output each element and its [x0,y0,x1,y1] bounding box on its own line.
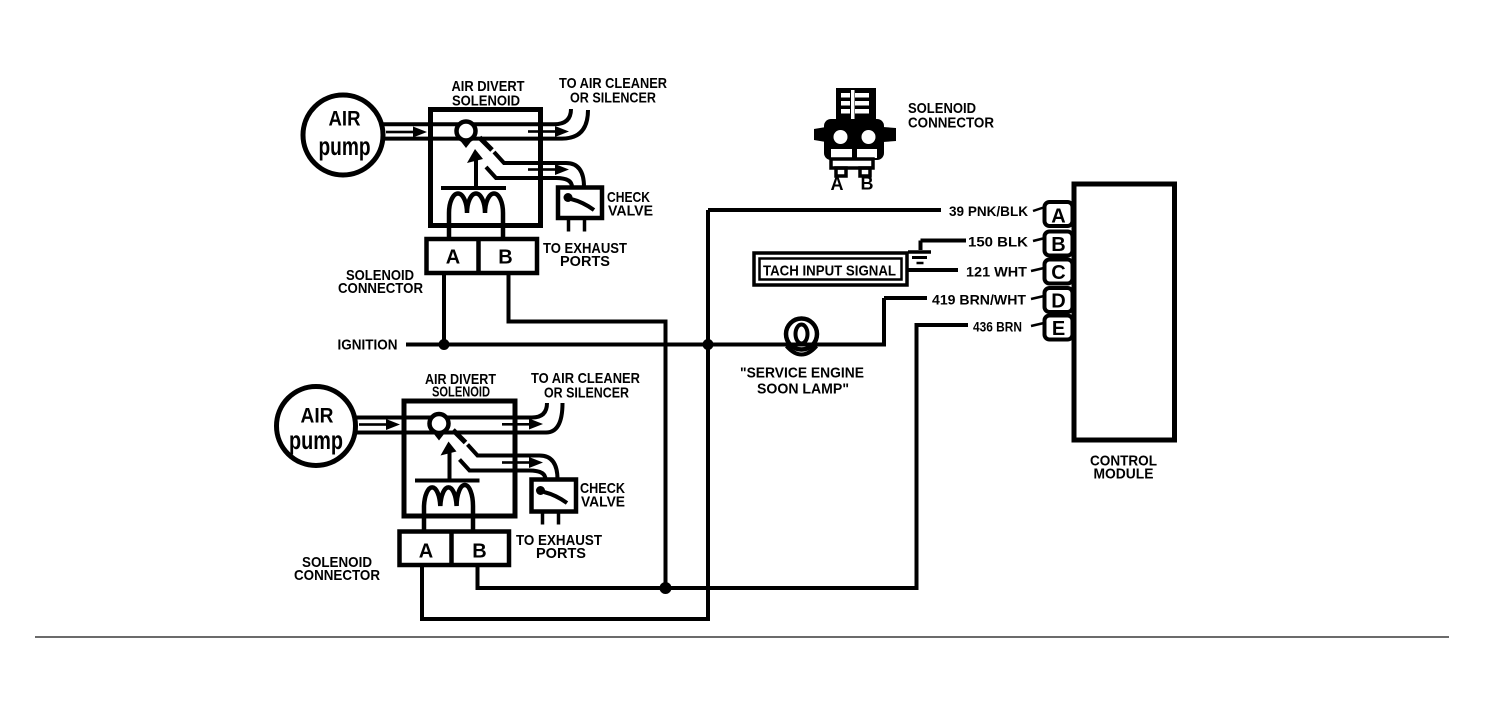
valve rotor V1 [457,122,476,141]
connector icon body [824,119,884,160]
solenoid coil L2 [424,485,473,532]
check valve flap [571,199,594,210]
svg-text:39 PNK/BLK: 39 PNK/BLK [949,203,1028,219]
tach input signal box [754,253,907,285]
svg-text:419 BRN/WHT: 419 BRN/WHT [932,292,1026,308]
pipe to check valve upper line [494,152,584,187]
svg-text:PORTS: PORTS [560,253,610,270]
check valve pivot dot [564,193,573,202]
pin dash B [1033,238,1045,241]
wire 39 PNK/BLK [708,208,941,212]
svg-text:SOON LAMP": SOON LAMP" [757,381,849,398]
wire J1-A down to ignition [442,273,446,345]
svg-text:VALVE: VALVE [581,494,625,511]
wire J1-B to lower junction [509,273,666,588]
wire 436 BRN lower bus [478,325,969,588]
connector divider [476,239,481,273]
plunger bar 2 [415,479,480,483]
pin box B [1045,232,1073,256]
solenoid connector block J1 [427,239,538,273]
connector divider 2 [449,532,454,566]
pipe to check valve lower line 2 [460,460,546,480]
solenoid valve body U1 [431,110,541,226]
valve rotor tip [459,139,473,148]
control module U2 [1074,184,1175,440]
flow arrow pump output [386,131,414,134]
svg-text:C: C [1051,262,1065,284]
svg-text:B: B [861,174,874,194]
svg-text:CONNECTOR: CONNECTOR [294,567,380,584]
svg-text:PORTS: PORTS [536,545,586,562]
svg-text:436 BRN: 436 BRN [973,319,1022,335]
svg-text:150 BLK: 150 BLK [968,234,1028,250]
plunger rod [474,156,478,188]
svg-text:B: B [472,541,486,563]
pin dash A [1033,207,1045,211]
svg-text:B: B [1051,234,1065,256]
ground bar 1 [908,250,931,254]
svg-text:A: A [446,247,460,269]
pin dash D [1031,296,1044,299]
svg-text:A: A [1051,206,1065,228]
svg-text:CONNECTOR: CONNECTOR [338,280,423,297]
svg-text:TACH INPUT SIGNAL: TACH INPUT SIGNAL [763,263,896,280]
svg-text:"SERVICE ENGINE: "SERVICE ENGINE [740,365,864,382]
air pump P1 [303,95,383,175]
service engine soon lamp DS1 [786,319,817,350]
wire pin A riser / bottom loop to lower connector A [422,210,708,619]
connector icon right tab [883,127,896,142]
flow arrow to check valve [528,168,556,171]
pin dash C [1031,268,1044,271]
pipe upper line P2 to air cleaner [354,403,547,418]
svg-text:MODULE: MODULE [1094,466,1154,483]
check valve pivot dot 2 [536,486,545,495]
solenoid valve body U3 [404,401,515,516]
svg-text:121 WHT: 121 WHT [966,264,1027,280]
pipe to check valve upper line 2 [468,445,558,480]
pipe lower line P1 to air cleaner [381,110,588,139]
plunger arrowhead [467,149,483,163]
flow arrow in-box [528,130,556,133]
wire ignition bus to lamp and pin D riser [406,298,884,345]
ground bar 3 [917,262,924,265]
connector icon left tab [814,127,826,142]
svg-text:IGNITION: IGNITION [338,337,398,354]
pipe lower line P2 to air cleaner [354,403,563,433]
check valve leg 2 [583,218,587,232]
pin box E [1045,316,1073,340]
junction dot lower bus [660,582,672,594]
solenoid connector block J2 [400,532,510,566]
svg-text:AIR: AIR [329,108,361,131]
wire 121 WHT [907,268,958,272]
air pump P2 [277,387,356,466]
svg-text:A: A [831,174,844,194]
svg-text:OR SILENCER: OR SILENCER [544,385,629,402]
valve flap 2 [453,430,466,443]
lamp base arc [787,346,817,355]
svg-text:VALVE: VALVE [608,203,653,220]
svg-text:E: E [1052,318,1065,340]
connector icon top block [836,88,876,121]
flow arrow in-box 2 [502,423,530,426]
pipe upper line P1 to air cleaner [381,109,571,124]
connector icon eye A [834,130,848,144]
svg-text:SOLENOID: SOLENOID [432,384,490,401]
svg-text:pump: pump [319,131,371,161]
ground bar 2 [912,256,927,259]
check valve leg 1b [541,512,545,525]
pin box C [1045,260,1073,284]
pin box A [1045,202,1073,226]
check valve CV2 [532,480,577,512]
connector icon eye B [862,130,876,144]
connector icon feet [831,159,873,168]
junction dot ignition-A [439,339,450,350]
check valve flap 2 [544,492,567,503]
pin box D [1045,288,1073,312]
ground stem G1 [919,241,923,251]
svg-text:CONNECTOR: CONNECTOR [908,115,994,132]
tach box inner border [760,259,902,280]
pipe to check valve lower line [486,167,572,187]
wire 419 BRN/WHT [884,296,927,300]
valve flap [480,138,493,151]
plunger bar [441,186,506,190]
lamp filament [796,325,808,344]
wire 150 BLK [921,239,967,243]
valve rotor V2 [430,414,449,433]
svg-text:SOLENOID: SOLENOID [452,93,520,110]
plunger rod 2 [448,449,452,481]
check valve leg 1 [567,218,571,232]
flow arrow to check valve 2 [502,461,530,464]
solenoid coil L1 [449,194,503,241]
svg-text:B: B [498,247,512,269]
flow arrow pump output 2 [359,423,387,426]
svg-text:OR SILENCER: OR SILENCER [570,90,656,107]
junction dot ignition-riser [703,339,714,350]
pin dash E [1031,323,1044,326]
valve rotor tip 2 [432,432,446,441]
check valve CV1 [558,188,602,219]
svg-text:D: D [1051,291,1065,313]
bottom rule [35,636,1449,638]
check valve leg 2b [557,512,561,525]
plunger arrowhead 2 [441,442,457,456]
svg-text:pump: pump [289,425,343,455]
svg-text:A: A [419,541,433,563]
connector icon mouth [831,149,852,158]
